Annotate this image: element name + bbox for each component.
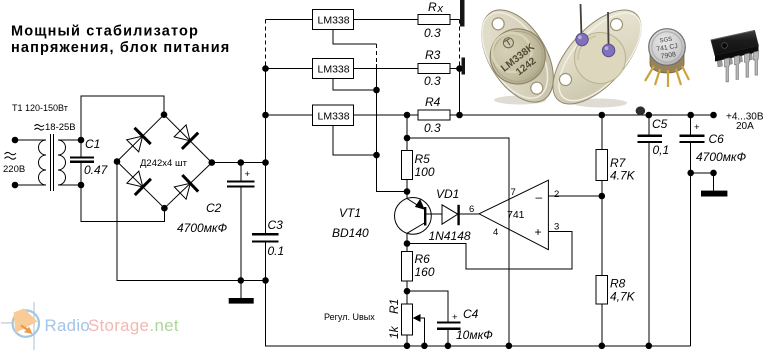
- svg-text:7: 7: [511, 187, 516, 198]
- regulator LM338 U3: [313, 105, 354, 126]
- node output R7: [599, 112, 606, 119]
- svg-text:C1: C1: [85, 137, 100, 151]
- svg-text:.net: .net: [150, 316, 179, 335]
- svg-text:4700мкФ: 4700мкФ: [696, 150, 747, 164]
- wire LM338 no.1 adj: [333, 30, 376, 45]
- transformer T1 secondary winding: [58, 140, 66, 185]
- svg-text:Регул. Uвых: Регул. Uвых: [324, 312, 375, 322]
- node VT1 emitter / adj: [404, 188, 411, 195]
- diode top-left (anode at left corner, cathode to top): [127, 128, 151, 152]
- node pin7 takeoff: [404, 135, 411, 142]
- right bus solid: [459, 66, 461, 115]
- back of can circle: [575, 33, 626, 84]
- svg-text:R3: R3: [425, 48, 441, 62]
- wire LM338 no.2 adj: [333, 79, 376, 90]
- node ground wire / C2: [238, 277, 245, 284]
- node adj bus no.3: [373, 152, 380, 159]
- watermark logo: [1, 302, 39, 350]
- photo: DIP-8 IC: [711, 31, 759, 82]
- svg-text:R8: R8: [610, 277, 626, 291]
- svg-text:20А: 20А: [736, 121, 754, 132]
- svg-text:+: +: [245, 169, 251, 180]
- svg-text:C4: C4: [463, 307, 479, 321]
- wire bridge plus output to bus: [212, 162, 266, 164]
- svg-text:Мощный стабилизатор: Мощный стабилизатор: [11, 24, 199, 40]
- resistor R3: [418, 64, 450, 74]
- capacitor C4: [437, 321, 461, 323]
- capacitor C5: [648, 115, 650, 135]
- node right bus R3: [456, 65, 463, 72]
- input terminal bottom: [12, 182, 19, 189]
- svg-text:4.7K: 4.7K: [610, 169, 636, 183]
- AC mains label 220V: [5, 152, 17, 154]
- watermark text: [45, 316, 179, 335]
- svg-text:VD1: VD1: [436, 187, 459, 201]
- potentiometer R1: [401, 304, 412, 335]
- svg-text:R1: R1: [387, 299, 401, 314]
- photo: 741 metal can TO-99: [645, 29, 689, 87]
- wire to op-amp pin 7 and pin 4 down to rail: [407, 138, 509, 346]
- node R1 bottom: [404, 343, 411, 350]
- node adj bus no.2: [373, 87, 380, 94]
- svg-text:10мкФ: 10мкФ: [456, 328, 493, 342]
- svg-text:BD140: BD140: [332, 226, 369, 240]
- node bus at ground wire: [262, 277, 269, 284]
- node bridge top: [161, 111, 168, 118]
- node R6/R1/C4: [404, 288, 411, 295]
- svg-text:LM338: LM338: [318, 15, 350, 27]
- wire AC2: secondary bottom to bridge bottom: [81, 185, 164, 222]
- svg-text:3: 3: [554, 222, 559, 233]
- output terminal: [710, 112, 717, 119]
- regulator LM338 U2: [313, 59, 354, 79]
- svg-text:0.3: 0.3: [424, 26, 441, 40]
- node C4 bottom: [445, 343, 452, 350]
- svg-text:x: x: [437, 3, 444, 15]
- svg-text:C2: C2: [206, 201, 222, 215]
- svg-text:+: +: [452, 312, 458, 323]
- bridge rectifier D242 x4 : diamond edges: [117, 115, 164, 162]
- resistor R6: [406, 244, 408, 252]
- wire secondary top lead: [58, 139, 81, 141]
- ground symbol output: [713, 173, 715, 191]
- svg-text:6: 6: [469, 204, 474, 215]
- wire secondary bottom lead: [58, 184, 81, 186]
- svg-text:C3: C3: [268, 218, 284, 232]
- resistor Rx: [418, 15, 450, 25]
- svg-text:C5: C5: [652, 117, 668, 131]
- wire bus to LM338 no.1: [266, 19, 313, 21]
- node C6 ground takeoff: [687, 170, 694, 177]
- node secondary top: [78, 137, 85, 144]
- node right bus R4: [456, 112, 463, 119]
- svg-text:100: 100: [415, 165, 435, 179]
- svg-text:VT1: VT1: [339, 206, 361, 220]
- diode bottom-right (anode at bottom corner, cathode to right): [174, 175, 198, 199]
- svg-text:160: 160: [415, 265, 435, 279]
- diode top-right (anode at top corner, cathode to right): [174, 125, 198, 149]
- wire Rx to right bus: [450, 19, 460, 21]
- wire R3 to right bus: [450, 68, 460, 70]
- photo: TO-3 package back with pins: [537, 0, 656, 119]
- adj bus solid down to VT1 emitter node: [377, 64, 408, 192]
- node C5 rail: [646, 343, 653, 350]
- svg-text:741: 741: [507, 209, 525, 221]
- svg-text:R4: R4: [425, 95, 441, 109]
- wire LM338 no.2 output to R3: [354, 68, 418, 70]
- wire to C4: [407, 291, 448, 321]
- right bus dashed: [459, 20, 461, 67]
- svg-text:220В: 220В: [3, 164, 25, 175]
- node collector/R6: [404, 240, 411, 247]
- resistor R7: [601, 115, 603, 149]
- transistor pin 2 with glass bead: [607, 12, 610, 49]
- svg-text:напряжения, блок питания: напряжения, блок питания: [11, 40, 230, 56]
- op-amp 741: [479, 180, 548, 250]
- diode bottom-left (anode at left corner, cathode to bottom): [127, 171, 151, 195]
- transistor VT1 BD140: [395, 198, 432, 235]
- node secondary bottom: [78, 182, 85, 189]
- svg-text:4700мкФ: 4700мкФ: [177, 221, 228, 235]
- wire LM338 no.1 output to Rx: [354, 19, 418, 21]
- photo edge artifacts: [460, 0, 465, 27]
- svg-text:Storage: Storage: [88, 316, 149, 335]
- node bridge left: [114, 158, 121, 165]
- node bus at plus wire: [262, 159, 269, 166]
- wire primary top lead: [15, 139, 46, 141]
- svg-text:0.47: 0.47: [84, 163, 109, 177]
- node output C6: [687, 112, 694, 119]
- input bus vertical dashed top: [265, 20, 267, 68]
- wire to output ground: [691, 172, 714, 174]
- wire LM338 no.3 adj: [333, 126, 376, 156]
- ground symbol main: [240, 280, 242, 298]
- secondary voltage label: [35, 125, 45, 127]
- svg-text:C6: C6: [709, 132, 725, 146]
- svg-text:1k: 1k: [387, 325, 401, 339]
- svg-text:R5: R5: [415, 152, 431, 166]
- svg-text:18-25В: 18-25В: [45, 122, 76, 133]
- output wire: [450, 114, 714, 116]
- wire AC1: secondary top to bridge top: [81, 96, 164, 140]
- svg-text:1N4148: 1N4148: [429, 229, 471, 243]
- svg-text:R6: R6: [415, 252, 431, 266]
- svg-text:Т1 120-150Вт: Т1 120-150Вт: [12, 103, 68, 113]
- svg-text:0.3: 0.3: [424, 74, 441, 88]
- resistor R5: [401, 151, 412, 180]
- capacitor C6 electrolytic: [690, 115, 692, 135]
- wire bus to LM338 no.3: [266, 114, 313, 116]
- input terminal top: [12, 137, 19, 144]
- node pin2/R7/R8: [599, 193, 606, 200]
- svg-text:R: R: [428, 0, 437, 14]
- wire LM338 no.3 output to R4: [354, 114, 418, 116]
- wire bridge minus down and right (ground wire): [117, 162, 266, 281]
- wire primary bottom lead: [15, 184, 46, 186]
- node pin4 rail: [506, 343, 513, 350]
- svg-text:0.3: 0.3: [424, 121, 441, 135]
- svg-text:2: 2: [554, 189, 559, 200]
- node bridge right: [209, 159, 216, 166]
- node bus LM338 no.3: [262, 112, 269, 119]
- node R1 wiper: [421, 343, 428, 350]
- svg-text:4,7K: 4,7K: [610, 290, 636, 304]
- mounting hole bottom left: [560, 74, 572, 86]
- node R8 rail: [599, 343, 606, 350]
- svg-text:0,1: 0,1: [653, 143, 670, 157]
- adj bus dashed segment: [376, 44, 378, 64]
- photo shadow under TO-3 back: [573, 99, 627, 108]
- wire bus to LM338 no.2: [266, 68, 313, 70]
- bottom rail from bus down and right: [266, 280, 691, 346]
- wire R4 left node: [407, 114, 418, 116]
- diode VD1 1N4148: [442, 205, 458, 224]
- svg-text:LM338: LM338: [318, 64, 350, 76]
- svg-text:–: –: [536, 190, 543, 204]
- svg-text:Д242х4 шт: Д242х4 шт: [140, 158, 188, 169]
- capacitor C3: [252, 233, 279, 235]
- svg-text:Radio: Radio: [45, 316, 91, 335]
- capacitor C1: [80, 140, 82, 157]
- node output C5: [646, 112, 653, 119]
- wire op-amp pin3 sense path: [407, 232, 572, 270]
- transformer core: [50, 134, 52, 191]
- resistor R4: [418, 110, 450, 120]
- transformer T1 primary winding: [39, 140, 46, 185]
- capacitor C2 electrolytic: [240, 163, 242, 181]
- node C2 top: [238, 159, 245, 166]
- svg-text:4: 4: [493, 227, 498, 238]
- regulator LM338 U1: [313, 10, 354, 30]
- photo: TO-3 package front (LM338K): [467, 0, 568, 114]
- node bus LM338 no.2: [262, 65, 269, 72]
- transistor pin 1 with glass bead: [581, 4, 582, 37]
- input bus vertical solid: [265, 67, 267, 233]
- svg-text:+: +: [694, 122, 700, 133]
- node R4 left: [404, 112, 411, 119]
- svg-text:+: +: [535, 225, 542, 239]
- photo shadow under TO-3 front: [494, 96, 546, 105]
- svg-text:0.1: 0.1: [268, 244, 285, 258]
- node bridge bottom: [161, 205, 168, 212]
- wire op-amp pin2 to divider: [548, 195, 601, 197]
- mounting hole top right: [611, 19, 623, 31]
- svg-text:LM338: LM338: [318, 111, 350, 123]
- unreg bus down from R4 left: [406, 115, 408, 151]
- resistor R8: [596, 276, 608, 305]
